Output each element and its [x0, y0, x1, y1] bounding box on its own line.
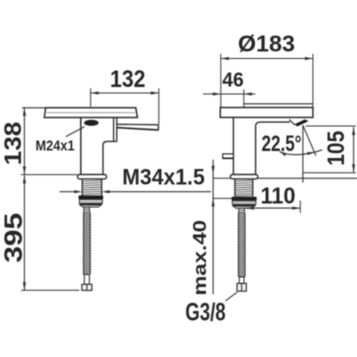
body left edge front [232, 117, 234, 174]
deck front view [220, 108, 313, 118]
nut dark line side [80, 203, 102, 205]
svg-text:M24x1: M24x1 [36, 137, 75, 154]
arrow M34 right pointing left [102, 190, 110, 193]
arrow 138 bottom [23, 167, 26, 175]
hose stub side [84, 207, 90, 213]
M34 arrow line right [109, 191, 211, 193]
svg-text:138: 138 [0, 122, 27, 166]
arc arrow right [307, 152, 314, 155]
arc arrow left [280, 152, 287, 157]
extension line hose bottom left [21, 289, 79, 291]
extension line flange bottom left [21, 174, 78, 176]
arrow 395 top [23, 175, 26, 183]
svg-text:110: 110 [261, 182, 296, 208]
M34 arrow line left [59, 191, 75, 193]
svg-text:46: 46 [222, 69, 244, 91]
extension line Ø183 right [312, 54, 314, 107]
svg-text:22.5°: 22.5° [262, 131, 302, 156]
extension line 132 right [158, 88, 160, 124]
dimension 132 line [91, 92, 159, 94]
extension line 110 right [299, 201, 301, 213]
svg-text:132: 132 [110, 66, 146, 93]
hose end fitting front [237, 283, 246, 291]
extension line 132 left [90, 88, 92, 106]
threaded shank front [234, 179, 236, 197]
arrow 132 left [91, 91, 99, 94]
nut lower band front [232, 201, 256, 205]
line above deck [244, 103, 313, 105]
lever wedge front [294, 119, 309, 126]
svg-text:Ø183: Ø183 [238, 30, 295, 56]
arrow max40 up [212, 198, 215, 206]
dimension 395 line [23, 175, 25, 290]
mounting nut dark band front [232, 197, 257, 201]
arrow M34 left pointing right [74, 190, 82, 193]
leader G3/8 [226, 292, 238, 301]
arrow 110 right [292, 207, 300, 210]
arrow 395 bottom [23, 282, 26, 290]
deck (spout plate) side view [44, 108, 137, 118]
max.40 dimension line [212, 160, 214, 295]
extension line deck top left [22, 107, 46, 109]
arrow 132 right [151, 91, 159, 94]
arrow 46 right pointing left [244, 92, 252, 95]
shank flange front [230, 175, 257, 179]
body left edge [80, 118, 82, 175]
hose end fitting side [82, 284, 92, 290]
arrow 110 left [246, 207, 254, 210]
dimension Ø183 line [221, 58, 313, 60]
braided hose side [84, 213, 91, 275]
body right edge with step [103, 141, 117, 174]
arrow Ø183 left [221, 57, 229, 60]
leader M24x1 [66, 127, 85, 137]
svg-text:105: 105 [323, 131, 350, 166]
extension line 46 right [243, 89, 245, 107]
body front edge pair [113, 118, 115, 141]
svg-text:max.40: max.40 [189, 220, 210, 296]
arrow 46 left pointing right [213, 92, 221, 95]
extension line max40 bottom [213, 197, 231, 199]
handle arm side view [117, 123, 159, 126]
dimension 105 line [353, 127, 355, 172]
shank flange side view [78, 175, 107, 179]
dimension 46 lines [203, 93, 244, 95]
braided hose front [238, 213, 245, 277]
arrow 105 bottom [352, 164, 355, 172]
thread hatch lines front [235, 180, 252, 196]
arrow max40 down [212, 166, 215, 175]
extension line max40 top [213, 177, 230, 179]
arrow 105 top [352, 127, 355, 135]
thread hatch lines side [83, 180, 102, 194]
nut dark line front [233, 204, 256, 206]
hose end tube front [239, 277, 244, 283]
extension line 105 top [306, 125, 356, 127]
nut lower band side [79, 200, 102, 204]
slanted 22.5 deg line [303, 125, 316, 156]
arrow 138 top [23, 108, 26, 116]
lever step front [289, 120, 294, 125]
washer trapezoid side [80, 205, 102, 207]
body right edge front with rounded corner [256, 122, 290, 174]
deck inner seam line [47, 112, 136, 114]
mounting plane line [258, 177, 357, 179]
hose end tube side [84, 275, 89, 285]
extension line 105 bottom [303, 172, 356, 174]
dimension 138 line [23, 108, 25, 175]
svg-text:G3/8: G3/8 [185, 299, 226, 327]
hose stub front [239, 208, 245, 212]
side tab front view [223, 154, 234, 158]
extension line Ø183 left [220, 54, 222, 107]
threaded shank side view [81, 179, 83, 196]
arrow Ø183 right [305, 57, 313, 60]
vertical reference line at lever pivot [302, 125, 304, 182]
svg-text:M34x1.5: M34x1.5 [122, 165, 205, 190]
dimension 110 line [246, 207, 300, 209]
angle arc 22.5 [280, 150, 323, 155]
mounting nut dark band side [79, 195, 104, 199]
aerator (M24x1 outlet) [84, 120, 99, 126]
svg-text:395: 395 [0, 213, 28, 263]
washer trapezoid front [233, 206, 255, 208]
